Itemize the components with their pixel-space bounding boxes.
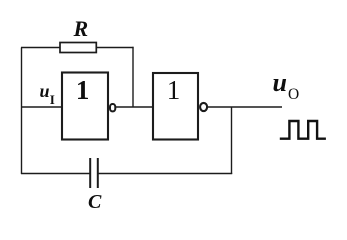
wire: bottom left segment [21,173,90,175]
svg-text:u: u [273,68,287,97]
wire: right feedback vertical drop [132,47,134,107]
resistor R [60,43,96,53]
svg-text:I: I [50,92,55,107]
label C [88,191,102,213]
wire: output branch vertical [231,107,233,174]
label 1 (U1 function) [76,75,90,105]
bubble: U2 output inversion circle [200,103,207,111]
svg-text:C: C [88,191,102,213]
capacitor C plates [90,158,98,188]
label u_I [40,81,55,107]
inverter U1 box [62,73,108,140]
wire: bottom right segment [98,173,232,175]
label u_O [273,68,300,103]
bubble: U1 output inversion circle [110,104,115,111]
waveform: output square wave symbol [280,121,326,139]
wire: input to U1 [21,106,61,108]
svg-text:1: 1 [76,75,90,105]
wire: left vertical rail [21,48,23,175]
svg-text:O: O [288,86,299,103]
label R [73,16,89,41]
svg-text:1: 1 [167,75,181,105]
svg-text:u: u [40,81,50,101]
inverter U2 box [153,73,198,140]
label 1 (U2 function) [167,75,181,105]
svg-text:R: R [73,16,89,41]
wire: top feedback right segment [96,47,133,49]
wire: U1 output to U2 input [116,106,152,108]
wire: output line [208,106,283,108]
wire: top feedback left segment [21,47,60,49]
